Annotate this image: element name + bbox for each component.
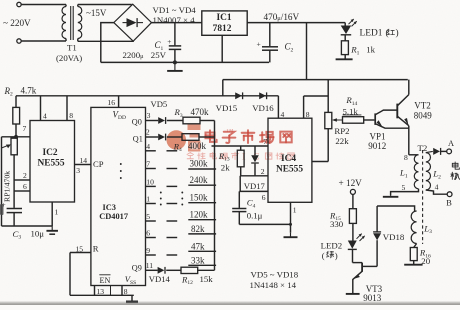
svg-text:20: 20 [421,256,430,266]
svg-text:3: 3 [147,111,151,120]
svg-text:4: 4 [435,183,439,192]
svg-text:+: + [257,39,261,48]
svg-text:LED1: LED1 [360,29,383,39]
svg-text:8049: 8049 [414,111,433,121]
svg-text:25V: 25V [151,50,167,60]
svg-text:RP1/470k: RP1/470k [3,171,12,202]
svg-text:Q0: Q0 [132,117,142,126]
svg-text:0.1μ: 0.1μ [247,211,263,221]
svg-text:15k: 15k [200,274,214,284]
svg-text:14: 14 [80,156,88,165]
svg-text:11: 11 [146,261,154,270]
svg-text:10: 10 [146,178,154,187]
svg-text:2: 2 [146,127,150,136]
svg-text:5: 5 [146,212,150,221]
svg-text:VD5 ~ VD18: VD5 ~ VD18 [251,270,299,280]
svg-text:RP2: RP2 [334,126,349,136]
svg-text:330: 330 [330,219,344,229]
svg-text:~15V: ~15V [86,8,107,18]
svg-text:IC2: IC2 [42,148,57,158]
svg-text:5: 5 [402,183,406,192]
svg-text:400k: 400k [188,141,207,151]
svg-text:+ 12V: + 12V [339,178,363,188]
svg-text:IC3: IC3 [103,203,117,212]
svg-text:2: 2 [261,167,265,176]
svg-text:8: 8 [124,287,128,296]
svg-text:VD18: VD18 [383,232,405,242]
svg-text:4: 4 [281,110,285,119]
svg-text:R: R [93,244,99,254]
svg-text:4.7k: 4.7k [21,86,37,96]
svg-text:3: 3 [76,166,80,175]
svg-text:2k: 2k [221,162,230,172]
svg-text:9012: 9012 [368,141,386,151]
svg-text:Q9: Q9 [132,264,142,273]
svg-text:10μ: 10μ [31,228,45,238]
svg-text:2: 2 [23,171,27,180]
svg-text:IC4: IC4 [281,154,296,164]
svg-text:7: 7 [263,137,267,146]
svg-text:1: 1 [55,207,59,216]
svg-text:33k: 33k [191,255,205,265]
svg-text:8: 8 [404,153,408,162]
svg-text:9: 9 [146,246,150,255]
svg-text:13: 13 [97,287,105,296]
svg-text:1N4148 × 14: 1N4148 × 14 [250,280,297,290]
svg-text:(: ( [322,251,325,261]
svg-text:VD16: VD16 [252,103,274,113]
svg-text:VD14: VD14 [149,274,171,284]
svg-text:150k: 150k [190,193,209,203]
svg-text:6: 6 [23,182,27,191]
svg-text:1: 1 [146,195,150,204]
svg-text:VD17: VD17 [244,181,266,191]
svg-text:120k: 120k [190,210,209,220]
svg-text:VD5: VD5 [151,99,168,109]
svg-text:6: 6 [262,193,266,202]
svg-text:): ) [396,28,399,39]
svg-text:+: + [167,37,171,46]
svg-text:240k: 240k [190,175,209,185]
svg-text:B: B [446,199,452,208]
svg-text:IC1: IC1 [216,13,231,23]
svg-text:6: 6 [146,229,150,238]
svg-text:22k: 22k [335,136,349,146]
svg-text:NE555: NE555 [276,164,303,174]
svg-text:470μ/16V: 470μ/16V [264,12,300,22]
svg-text:300k: 300k [190,159,209,169]
svg-text:470k: 470k [191,107,210,117]
svg-text:8: 8 [306,110,310,119]
svg-text:1N4007 × 4: 1N4007 × 4 [153,15,196,25]
svg-text:7: 7 [23,124,27,133]
svg-text:LED2: LED2 [321,241,343,251]
svg-text:T1: T1 [67,43,77,53]
svg-text:NE555: NE555 [37,159,64,169]
svg-text:47k: 47k [191,241,205,251]
svg-text:~ 220V: ~ 220V [3,18,31,28]
svg-text:8: 8 [69,111,73,120]
svg-text:16: 16 [107,98,115,107]
svg-text:15: 15 [76,244,84,253]
svg-text:Q1: Q1 [133,135,143,144]
svg-text:): ) [335,251,338,261]
svg-text:1k: 1k [366,44,375,54]
svg-text:CP: CP [93,159,104,169]
svg-text:4: 4 [146,142,150,151]
svg-text:EN: EN [100,276,111,285]
svg-text:7: 7 [146,160,150,169]
svg-text:VD15: VD15 [216,103,238,113]
svg-text:A: A [448,139,454,148]
svg-text:7812: 7812 [213,24,232,34]
svg-text:VD1 ~ VD4: VD1 ~ VD4 [153,5,197,15]
svg-text:82k: 82k [191,224,205,234]
svg-text:(20VA): (20VA) [56,53,82,63]
svg-text:VT2: VT2 [414,101,431,111]
svg-text:1: 1 [293,205,297,214]
svg-text:4: 4 [43,111,47,120]
svg-text:CD4017: CD4017 [99,212,128,221]
